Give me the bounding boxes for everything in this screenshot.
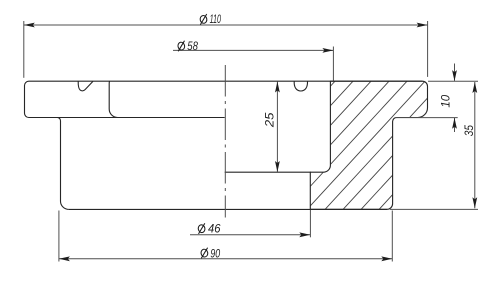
D46 dimension line bbox=[190, 234, 310, 236]
D110 right arrow bbox=[417, 23, 428, 28]
left body (boss) edge with fillets bbox=[57, 118, 69, 210]
25 dimension line bbox=[276, 82, 278, 172]
centerline (dash-dot axis) bbox=[224, 65, 226, 218]
35 top arrow bbox=[472, 82, 477, 93]
svg-text:10: 10 bbox=[439, 95, 453, 108]
D46 symbol bbox=[198, 224, 206, 233]
10 bottom arrow (points up) bbox=[452, 118, 457, 129]
D58 extension line bbox=[332, 47, 334, 81]
10 dimension line lower tail bbox=[454, 118, 456, 132]
svg-text:35: 35 bbox=[462, 125, 476, 136]
10 dimension line upper tail bbox=[454, 64, 456, 81]
svg-text:46: 46 bbox=[208, 222, 221, 236]
35 bottom arrow bbox=[472, 197, 477, 208]
extension bottom right bbox=[390, 208, 478, 210]
svg-text:58: 58 bbox=[187, 39, 198, 53]
35 dimension line bbox=[474, 82, 476, 208]
D58 right arrow bbox=[322, 48, 333, 53]
D110 dimension line bbox=[24, 24, 428, 26]
inner silhouette curve (bore wall, view half) bbox=[109, 81, 118, 117]
10 top arrow (points down) bbox=[452, 70, 457, 81]
D110 symbol bbox=[199, 15, 207, 24]
D90 right arrow bbox=[381, 256, 392, 261]
extension top right bbox=[428, 80, 478, 82]
hole arc right (semicircle) bbox=[294, 81, 307, 91]
D110 left arrow bbox=[24, 23, 35, 28]
D46 right arrow bbox=[299, 232, 310, 237]
D46 extension line bbox=[309, 210, 311, 237]
svg-text:110: 110 bbox=[210, 12, 221, 26]
hatching (section lines) bbox=[203, 60, 500, 225]
D90 left arrow bbox=[59, 256, 70, 261]
D58 symbol bbox=[177, 42, 185, 51]
25 top arrow bbox=[275, 82, 280, 93]
section (hatched region) outline bbox=[310, 81, 427, 209]
diameter symbols (circle + slash) bbox=[177, 14, 208, 258]
D90 dimension line bbox=[59, 258, 392, 260]
D90 symbol bbox=[200, 249, 208, 258]
hole arc left (J-shaped) bbox=[78, 81, 93, 90]
step (counterbore shoulder) line bbox=[225, 171, 311, 173]
svg-text:90: 90 bbox=[210, 246, 220, 260]
D58 dimension line bbox=[173, 49, 333, 51]
svg-text:25: 25 bbox=[263, 112, 277, 128]
arrowheads bbox=[24, 23, 477, 262]
bottom edge bbox=[69, 208, 387, 210]
dimension texts bbox=[187, 12, 476, 260]
D90 extension lines bbox=[58, 211, 60, 262]
extension mid right (flange underside) bbox=[395, 117, 458, 119]
D110 extension lines bbox=[23, 21, 25, 78]
outline: flange top edge, left cap and underside to centerline bbox=[25, 81, 423, 117]
25 bottom arrow bbox=[275, 161, 280, 172]
